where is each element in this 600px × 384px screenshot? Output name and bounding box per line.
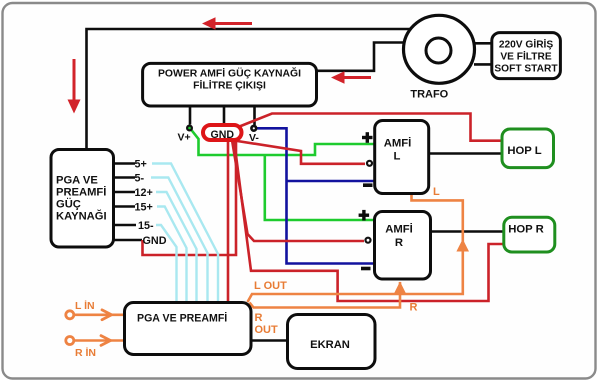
- svg-text:12+: 12+: [135, 187, 153, 199]
- svg-text:5-: 5-: [135, 173, 145, 185]
- svg-text:HOP R: HOP R: [508, 224, 544, 236]
- svg-text:L İN: L İN: [75, 299, 95, 312]
- svg-text:R: R: [255, 312, 263, 324]
- svg-text:L: L: [433, 186, 440, 198]
- svg-text:15+: 15+: [135, 202, 153, 214]
- svg-text:L: L: [394, 151, 401, 163]
- svg-text:15-: 15-: [138, 220, 154, 232]
- svg-text:POWER AMFİ GÜÇ KAYNAĞI: POWER AMFİ GÜÇ KAYNAĞI: [158, 67, 301, 80]
- svg-text:PREAMFİ: PREAMFİ: [56, 186, 106, 199]
- svg-text:HOP L: HOP L: [507, 145, 541, 157]
- svg-text:V-: V-: [249, 132, 259, 144]
- svg-text:PGA VE PREAMFİ: PGA VE PREAMFİ: [137, 312, 227, 325]
- svg-text:OUT: OUT: [255, 324, 279, 336]
- svg-text:GND: GND: [211, 129, 235, 141]
- svg-text:R İN: R İN: [75, 346, 96, 359]
- svg-text:KAYNAĞI: KAYNAĞI: [56, 210, 107, 223]
- svg-text:GÜÇ: GÜÇ: [56, 198, 81, 211]
- svg-text:SOFT START: SOFT START: [494, 64, 558, 75]
- svg-text:R: R: [410, 302, 418, 314]
- svg-text:PGA VE: PGA VE: [56, 175, 98, 187]
- svg-text:AMFİ: AMFİ: [385, 223, 413, 236]
- svg-text:EKRAN: EKRAN: [310, 339, 350, 351]
- svg-text:5+: 5+: [135, 159, 147, 171]
- svg-text:VE FİLTRE: VE FİLTRE: [500, 50, 552, 63]
- svg-text:L OUT: L OUT: [254, 280, 287, 292]
- svg-text:R: R: [395, 237, 403, 249]
- svg-text:GND: GND: [143, 235, 167, 247]
- svg-text:220V GİRİŞ: 220V GİRİŞ: [499, 38, 554, 51]
- svg-text:FİLİTRE ÇIKIŞI: FİLİTRE ÇIKIŞI: [193, 79, 266, 92]
- svg-text:V+: V+: [178, 132, 191, 144]
- svg-text:TRAFO: TRAFO: [410, 89, 448, 101]
- svg-text:AMFİ: AMFİ: [384, 137, 412, 150]
